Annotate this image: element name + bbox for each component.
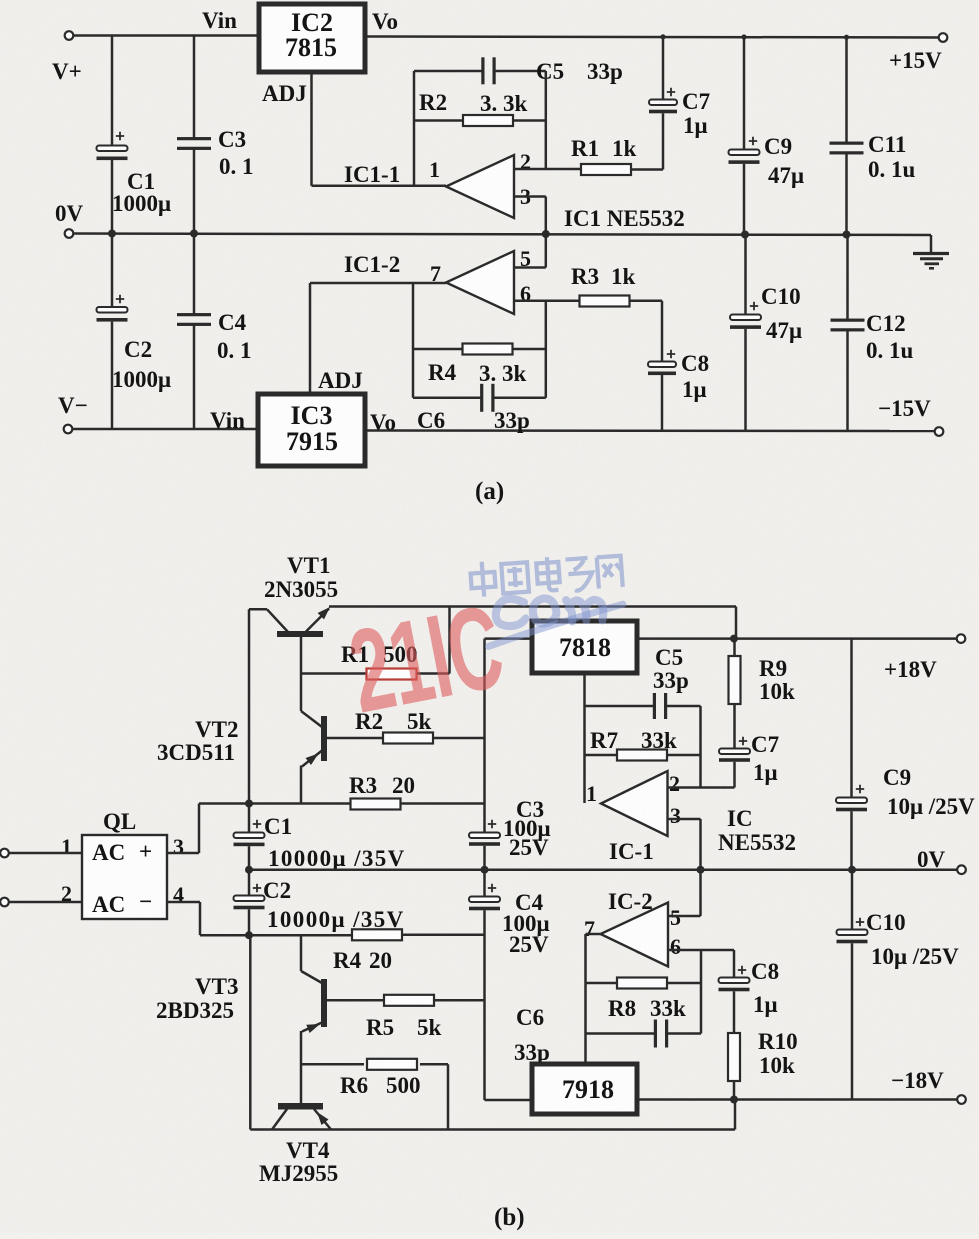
wire C2 column lower: [111, 322, 114, 429]
op-amp IC-1: [601, 771, 668, 836]
feedback loop b2: left vertical: [586, 933, 601, 936]
capacitor C1 electrolytic: [97, 146, 128, 152]
terminal +15V: [939, 33, 948, 42]
wire C4 column lower: [193, 323, 196, 429]
wire VT1 emitter rail: [329, 605, 736, 608]
+18V rail: [637, 637, 957, 640]
regulator IC2 7815 box: [259, 4, 365, 72]
wire C3 column upper: [193, 36, 196, 140]
circuit (a) top rail: V+ input wire: [65, 31, 74, 40]
capacitor C4: [177, 313, 211, 316]
0V rail (a): [65, 229, 74, 238]
wire pin5 to 0V rail: [668, 915, 701, 918]
-18V rail: [637, 1098, 957, 1101]
junction dot raw-: [245, 931, 253, 939]
wire pin2 to C7 column: [668, 786, 735, 789]
wire raw- down to VT4 loop: [249, 935, 252, 1129]
feedback loop a2: bottom wire: [413, 397, 481, 400]
wire C1 column upper: [111, 36, 114, 147]
feedback loop b2: bottom wire: [586, 1032, 656, 1035]
wire 7918 input: [485, 1099, 533, 1102]
-15V rail from IC3 output: [365, 429, 939, 432]
feedback loop a1: left vertical: [413, 71, 416, 186]
capacitor C10 47u electrolytic: [744, 235, 747, 316]
wire IC1-1 output to ADJ node: [312, 185, 447, 188]
wire IC1-2 output to IC3 ADJ: [310, 282, 446, 285]
wire pin5 to 0V rail: [514, 266, 546, 269]
terminal -15V: [935, 427, 944, 436]
capacitor C3: [177, 137, 211, 140]
wire op-amp pin3 to 0V: [514, 195, 546, 198]
wire 7818 input column: [483, 639, 486, 833]
capacitor C8 1u electrolytic (b): [733, 950, 736, 978]
feedback loop a1: right vertical: [545, 71, 548, 169]
wire pin6 to R3: [514, 299, 579, 302]
wire op-amp pin2 to R1: [514, 168, 581, 171]
capacitor C11 0.1u: [845, 37, 848, 144]
wire 7818 ADJ pin down: [583, 673, 586, 706]
capacitor C12 0.1u: [846, 235, 849, 322]
wire C4 column: [483, 870, 486, 897]
junction dot -18V node: [730, 1096, 738, 1104]
wire pin3 to 0V rail (b): [668, 818, 701, 821]
capacitor C9 47u electrolytic: [743, 37, 746, 150]
capacitor C4 100u electrolytic (b): [469, 897, 500, 903]
junction dots on 0V rail (a): [108, 230, 116, 238]
capacitor C7 1u electrolytic (b): [733, 704, 736, 749]
feedback loop b1: right vertical: [699, 706, 702, 788]
capacitor C9 10u electrolytic (b): [850, 639, 853, 798]
resistor R10 10k: [728, 1033, 740, 1081]
capacitor C5 33p: [481, 57, 484, 84]
watermark com script: [484, 587, 626, 646]
junction dot raw+: [245, 800, 253, 808]
regulator IC3 7915 box: [258, 394, 365, 466]
watermark 21IC red: [340, 579, 512, 737]
wire QL pin3 to raw+ node: [167, 852, 199, 855]
resistor R9 10k: [733, 639, 736, 656]
capacitor C1 10000u electrolytic (b): [248, 804, 251, 834]
capacitor C5 33p (b): [653, 693, 656, 719]
capacitor C8 1u electrolytic: [661, 301, 664, 362]
feedback loop b2: right vertical: [700, 950, 703, 1034]
feedback loop a2: right vertical: [545, 301, 548, 398]
junction dots on 0V rail (b): [245, 866, 253, 874]
terminal V-: [64, 425, 73, 434]
wire C2 column upper: [111, 234, 114, 309]
capacitor C2 electrolytic: [97, 307, 128, 313]
capacitor C7 1u electrolytic: [662, 37, 665, 100]
regulator 7818 box: [532, 621, 637, 673]
wire C3 column lower: [193, 147, 196, 234]
terminal QL pin2: [0, 898, 9, 907]
feedback loop a1: top wire segments: [414, 70, 483, 73]
regulator 7918 box: [532, 1064, 637, 1114]
wire C1 column lower: [111, 160, 114, 234]
watermark chinese characters: [470, 552, 623, 598]
wire +15V rail from IC2 output: [365, 37, 943, 38]
feedback loop a2: left vertical: [412, 283, 415, 398]
0V rail (b): [249, 868, 957, 871]
bottom return wire (b): [250, 1128, 735, 1131]
junction dot +18V node: [730, 635, 738, 643]
capacitor C6 33p: [480, 384, 483, 412]
terminal QL pin1: [0, 849, 9, 858]
wire pin6 to C8 column: [668, 949, 734, 952]
capacitor C10 10u electrolytic (b): [851, 870, 854, 930]
capacitor C3 100u electrolytic: [469, 833, 500, 839]
ground symbol: [930, 235, 933, 254]
small junction dots on +15V rail: [660, 34, 665, 39]
resistor R4 3.3k: [413, 348, 462, 351]
wire C4 column upper: [193, 234, 196, 316]
feedback loop b1: left vertical and top: [583, 706, 586, 803]
capacitor C6 33p (b): [654, 1020, 657, 1048]
wire V- to IC3: [72, 428, 258, 431]
wire QL pin4 to raw- node: [167, 901, 200, 904]
capacitor C2 10000u electrolytic (b): [248, 870, 251, 896]
